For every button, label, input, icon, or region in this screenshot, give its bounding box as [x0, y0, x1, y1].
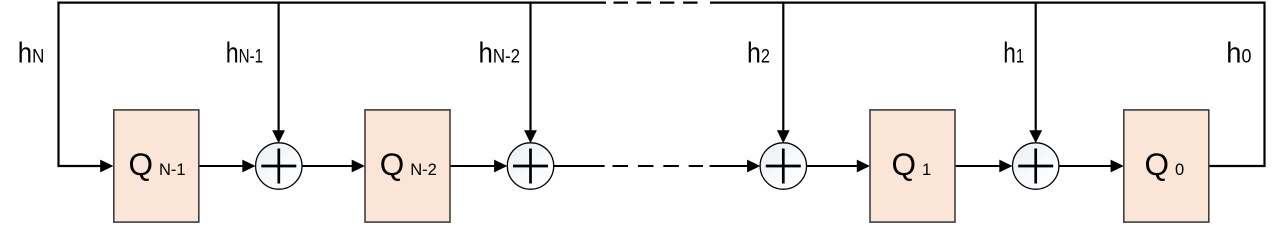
flip-flop QN-1	[114, 110, 199, 222]
label hN	[18, 36, 45, 69]
svg-text:0: 0	[1175, 161, 1184, 179]
wire QN-1 output to adder X1 with arrow	[199, 165, 244, 167]
wire adder X3 output to Q1 input with arrow	[807, 165, 859, 167]
wire dashed continuation into adder X3 with arrow	[710, 165, 749, 167]
adder X2 (XOR circle)	[507, 143, 553, 189]
label hN-1	[226, 36, 263, 69]
wire h0 feedback: Q0 output right then up to top line	[1208, 2, 1265, 167]
svg-text:Q: Q	[1145, 146, 1170, 182]
wire hN-2 tap vertical with arrow into adder X2	[529, 2, 531, 132]
flip-flop QN-2	[365, 110, 450, 222]
svg-text:N-2: N-2	[410, 161, 437, 179]
svg-text:h0: h0	[1226, 37, 1251, 69]
wire hN-1 tap vertical with arrow into adder X1	[278, 2, 280, 132]
wire feedback top line left solid segment	[57, 1, 606, 3]
svg-text:Q: Q	[129, 146, 154, 182]
svg-text:1: 1	[922, 161, 931, 179]
svg-text:hN-2: hN-2	[479, 36, 521, 69]
wire feedback top line dashed middle segment	[614, 1, 698, 3]
wire h2 tap vertical with arrow into adder X3	[782, 2, 784, 132]
flip-flop Q0	[1124, 110, 1209, 222]
label h1	[1003, 36, 1024, 69]
wire adder X4 output to Q0 input with arrow	[1059, 165, 1112, 167]
svg-text:N-1: N-1	[159, 161, 186, 179]
label h2	[747, 37, 770, 69]
adder X3 (XOR circle)	[760, 143, 806, 189]
svg-text:hN: hN	[18, 36, 45, 69]
wire feedback top line right solid segment	[710, 1, 1265, 3]
wire Q1 output to adder X4 with arrow	[955, 165, 1001, 167]
label h0	[1226, 37, 1251, 69]
svg-text:h2: h2	[747, 37, 770, 69]
wire QN-2 output to adder X2 with arrow	[450, 165, 495, 167]
wire h1 tap vertical with arrow into adder X4	[1035, 2, 1037, 132]
svg-text:Q: Q	[892, 146, 917, 182]
wire adder X1 output to QN-2 input with arrow	[302, 165, 353, 167]
svg-text:h1: h1	[1003, 36, 1024, 69]
wire adder X2 output solid then dashed continuation	[554, 165, 605, 167]
flip-flop Q1	[870, 110, 955, 222]
label hN-2	[479, 36, 521, 69]
adder X4 (XOR circle)	[1012, 143, 1058, 189]
wire main line dashed middle segment	[613, 165, 704, 167]
wire hN tap: left vertical from top line down into QN-1 input	[59, 2, 102, 167]
svg-text:hN-1: hN-1	[226, 36, 263, 69]
svg-text:Q: Q	[380, 146, 405, 182]
adder X1 (XOR circle)	[256, 143, 302, 189]
